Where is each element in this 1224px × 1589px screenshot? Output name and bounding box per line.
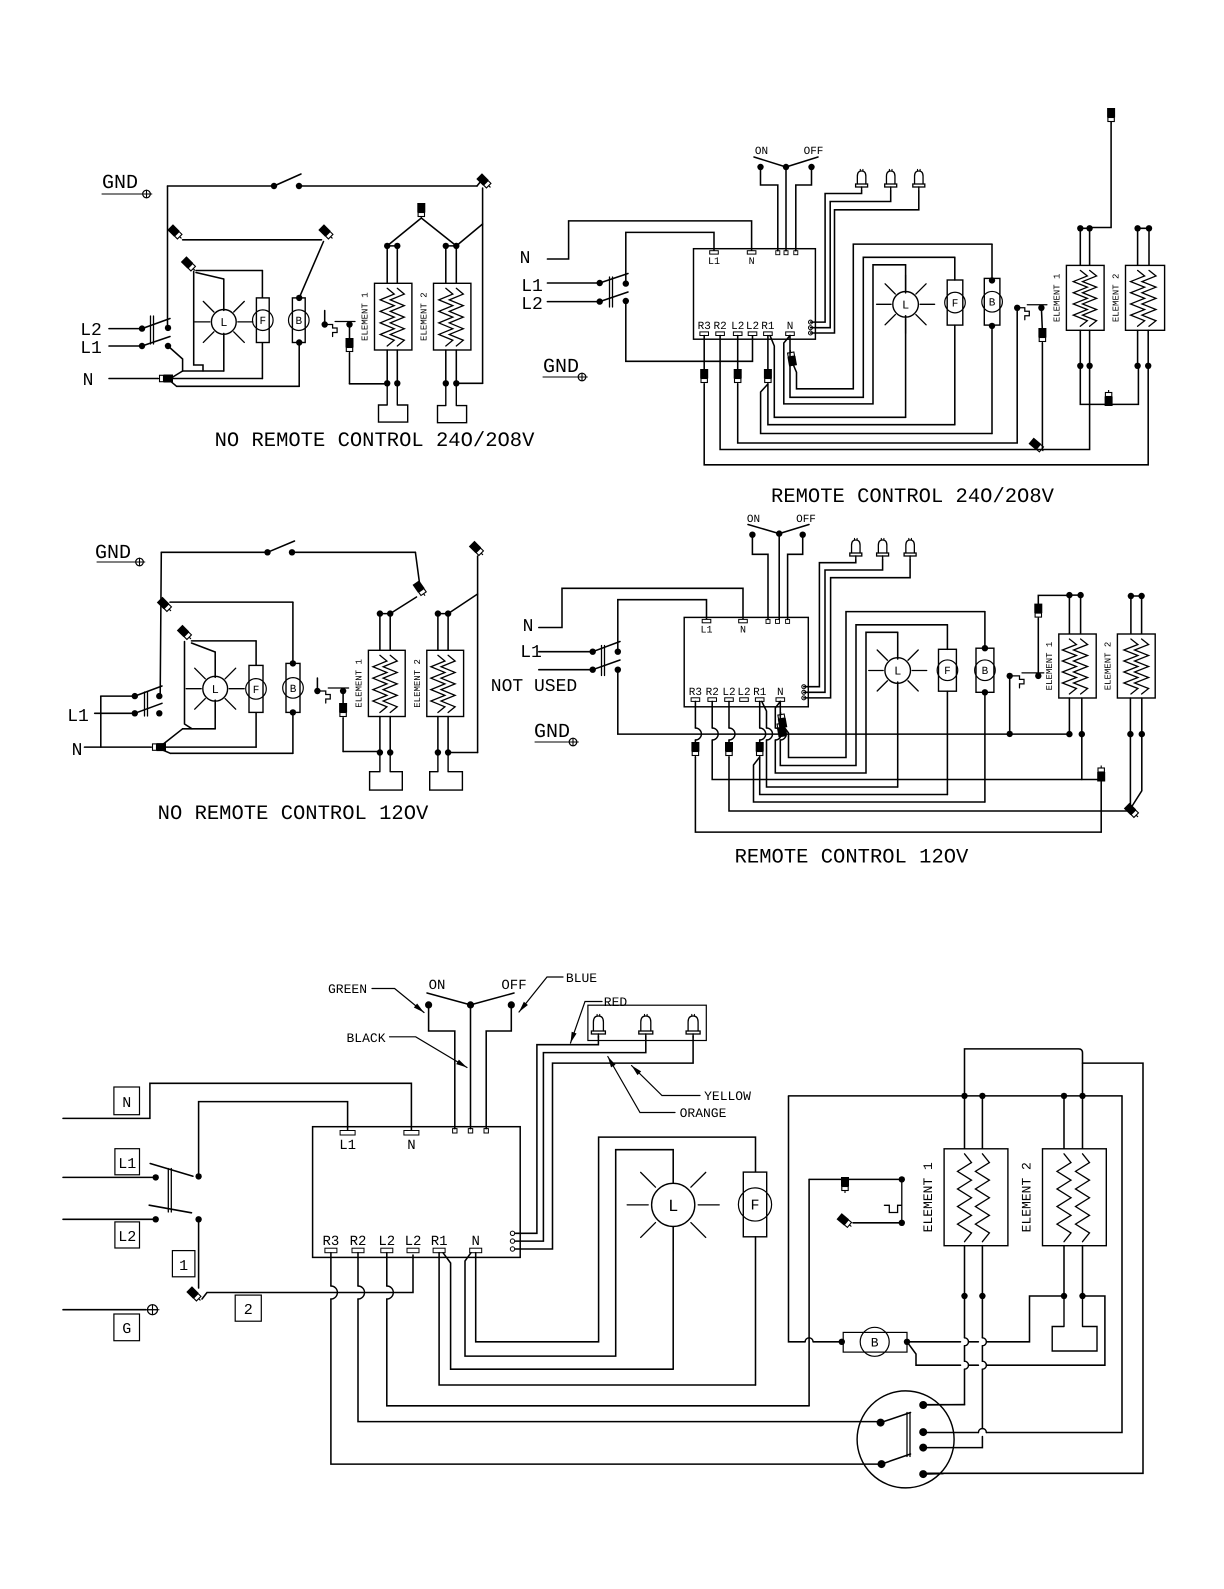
- terminal lug on R2 line: [1029, 438, 1046, 454]
- terminal lug A: [167, 224, 184, 241]
- svg-text:B: B: [982, 666, 989, 678]
- indicator lamp 2: [886, 171, 895, 184]
- wire element2 to right vertical: [456, 382, 482, 384]
- wire N feed: [109, 378, 158, 380]
- terminals R3 R2 L2 L2 R1 N: [700, 332, 709, 336]
- wire R2 to element1 right: [712, 701, 1101, 779]
- wires ON-OFF to box: [752, 535, 768, 620]
- label 2 boxed: [235, 1295, 261, 1321]
- switch ON-OFF: [425, 1001, 432, 1008]
- wire N to fan bottom: [171, 378, 263, 380]
- wire lug B to buzzer top: [300, 242, 323, 296]
- svg-text:1: 1: [179, 1258, 188, 1275]
- feed terminal for elements: [417, 203, 425, 219]
- svg-text:2: 2: [244, 1302, 253, 1319]
- wire N to fan top: [476, 1137, 756, 1342]
- wire buzzer right to element2 right: [907, 1296, 1105, 1365]
- terminal lug on cutout wire: [339, 703, 347, 719]
- terminal lug on element link: [1105, 390, 1113, 406]
- wire N to buzzer top: [793, 244, 992, 389]
- svg-text:L2: L2: [80, 321, 102, 341]
- wires element bottoms: [386, 350, 388, 383]
- switch DP contacts: [195, 1173, 201, 1179]
- lamp bank box: [588, 1005, 706, 1040]
- thermal cutout: [316, 678, 318, 690]
- svg-text:YELLOW: YELLOW: [704, 1089, 751, 1104]
- terminal lug above cutout: [1034, 604, 1042, 620]
- wire element2 diag to right vertical: [456, 224, 482, 246]
- wire R2 to rotary: [358, 1253, 881, 1422]
- ground symbol: [148, 1305, 158, 1315]
- lamp L: [652, 1183, 695, 1226]
- svg-text:R3: R3: [689, 687, 702, 699]
- svg-text:L2: L2: [731, 321, 744, 333]
- node element2 top: [1134, 225, 1140, 231]
- svg-text:GND: GND: [543, 356, 579, 379]
- terminal lug N: [150, 743, 166, 751]
- wire cutout to element 1: [349, 325, 351, 342]
- svg-text:L1: L1: [339, 1138, 356, 1154]
- switch DP contacts: [156, 693, 162, 699]
- wire N to control box: [539, 588, 743, 627]
- svg-text:ELEMENT 1: ELEMENT 1: [1045, 642, 1055, 691]
- node element1 top: [1077, 225, 1083, 231]
- terminal N: [404, 1131, 419, 1136]
- wires lamps to box pins: [515, 1036, 598, 1233]
- wire R3 bottom run: [694, 701, 696, 745]
- wire right vertical: [477, 556, 479, 753]
- wire L2 to junction: [387, 1253, 809, 1406]
- wire N to lamp top: [784, 265, 906, 404]
- wire L2 contact to box L2: [626, 301, 753, 361]
- wire lug C to lamp top: [196, 273, 224, 280]
- wire cutout to element1: [342, 691, 344, 706]
- svg-text:L2: L2: [521, 295, 543, 315]
- wire L1 feed: [547, 282, 599, 284]
- buzzer B: [976, 648, 994, 692]
- wire buzzer right to element2 left: [907, 1296, 1064, 1342]
- indicator lamp 1: [852, 540, 861, 553]
- terminal L1: [340, 1131, 355, 1136]
- terminal lug L2: [186, 1286, 203, 1303]
- element 1: [1066, 265, 1104, 330]
- terminal lug on R2 line: [1097, 766, 1105, 782]
- wire L2 contact down: [198, 1219, 200, 1288]
- wire lug A to lug B: [183, 239, 322, 241]
- wire GND top run with switch: [168, 185, 275, 187]
- terminal L1: [710, 251, 719, 254]
- svg-text:ELEMENT 1: ELEMENT 1: [921, 1162, 936, 1232]
- wire N to lamp top: [775, 632, 897, 773]
- svg-text:R3: R3: [698, 321, 711, 333]
- wire right vertical: [482, 188, 484, 383]
- wire lug E drop: [185, 642, 193, 729]
- ground symbol: [543, 376, 576, 378]
- svg-text:N: N: [72, 741, 83, 761]
- wire L2 feed: [63, 1218, 156, 1220]
- indicator lamp 1: [857, 171, 866, 184]
- wire element2 right diag: [1132, 734, 1142, 807]
- wires element bottoms: [964, 1246, 966, 1296]
- wire lamp bottom lead: [223, 333, 225, 371]
- svg-text:R3: R3: [322, 1234, 339, 1250]
- terminal lug N: [157, 375, 173, 383]
- wire R1 to fan bottom: [768, 384, 955, 425]
- wire N to buzzer top: [783, 612, 985, 758]
- indicator lamp 2: [641, 1016, 651, 1031]
- terminal L1: [702, 619, 711, 622]
- plug element 1: [379, 383, 408, 422]
- pins box top: [766, 619, 770, 623]
- wire L2 to cutout: [738, 308, 1018, 443]
- ground symbol: [535, 741, 567, 743]
- wire top to corner terminal: [299, 185, 477, 187]
- svg-text:REMOTE CONTROL 12OV: REMOTE CONTROL 12OV: [735, 847, 969, 870]
- element 2: [1043, 1149, 1107, 1246]
- wire L1 feed: [95, 712, 135, 714]
- terminal lug at corner: [1124, 803, 1141, 820]
- lamp L: [885, 658, 911, 684]
- node element2 top: [443, 243, 449, 249]
- wire L1 contact to box L1: [626, 232, 714, 283]
- wire top to element feed: [292, 551, 415, 553]
- element 1: [368, 650, 405, 716]
- fan F: [947, 280, 963, 325]
- svg-text:L1: L1: [80, 339, 102, 359]
- svg-text:NOT USED: NOT USED: [491, 677, 577, 697]
- fan F: [256, 298, 269, 343]
- svg-text:BLACK: BLACK: [346, 1031, 385, 1046]
- svg-text:R1: R1: [761, 321, 775, 333]
- wire N to buzzer bottom: [177, 385, 300, 387]
- wire R1 to buzzer bottom: [754, 757, 985, 802]
- wire thermostat feed vertical: [808, 1179, 810, 1405]
- terminal lug on cutout wire: [346, 338, 354, 354]
- thermal cutout feed: [1009, 676, 1011, 734]
- svg-text:G: G: [122, 1321, 131, 1338]
- wire cutout to element1 top: [1037, 619, 1039, 676]
- svg-text:L2: L2: [118, 1229, 136, 1246]
- wire element2 left down to corner: [1129, 734, 1131, 809]
- svg-text:L2: L2: [405, 1234, 422, 1250]
- wire L2 to element2 left: [729, 757, 1130, 811]
- wire unused feed: [539, 669, 593, 671]
- element 1: [375, 283, 412, 350]
- svg-text:GND: GND: [534, 721, 570, 744]
- svg-text:B: B: [989, 298, 996, 310]
- lamp L: [211, 310, 236, 335]
- svg-text:F: F: [944, 666, 951, 678]
- svg-text:F: F: [259, 316, 266, 328]
- rotary blades: [881, 1413, 911, 1423]
- terminals R3 R2 L2 L2 R1 N: [325, 1248, 337, 1253]
- svg-text:N: N: [407, 1138, 415, 1154]
- node element2 top: [435, 610, 441, 616]
- svg-text:N: N: [520, 249, 531, 269]
- indicator lamp 2: [878, 540, 887, 553]
- node element1 top: [384, 243, 390, 249]
- pins box top: [453, 1129, 457, 1133]
- wire to far right down: [923, 1063, 1143, 1473]
- svg-text:B: B: [871, 1336, 879, 1351]
- terminal lug B: [318, 224, 335, 241]
- terminal lug under L2: [728, 701, 730, 745]
- fan F: [743, 1172, 766, 1237]
- indicator lamp 1: [593, 1016, 603, 1031]
- label G boxed: [114, 1314, 140, 1341]
- svg-text:L: L: [212, 683, 219, 697]
- terminal lug under cutout: [1041, 308, 1042, 331]
- indicator lamp 3: [688, 1016, 698, 1031]
- buzzer B: [292, 298, 305, 343]
- svg-text:ON: ON: [755, 146, 768, 158]
- wire lug E to fan top: [192, 640, 257, 642]
- wires ON-OFF to box: [761, 167, 778, 251]
- pins box top: [776, 251, 780, 255]
- svg-text:R1: R1: [431, 1234, 448, 1250]
- wires element tops down: [386, 246, 388, 283]
- svg-text:N: N: [122, 1095, 131, 1112]
- label 1 boxed: [172, 1251, 195, 1277]
- wire N jumper to upper pole: [101, 695, 135, 697]
- wire element1 left to element2 left: [1080, 366, 1138, 405]
- element 2: [1117, 634, 1155, 698]
- wires element bottoms: [1079, 330, 1081, 366]
- svg-text:R2: R2: [713, 321, 726, 333]
- terminal N: [739, 619, 748, 622]
- svg-text:L1: L1: [520, 643, 542, 663]
- wire element1 left top up: [965, 1049, 1083, 1096]
- svg-text:L: L: [894, 665, 901, 679]
- thermal cutout vertical: [899, 1176, 905, 1182]
- wires pins to indicator lamps: [811, 191, 862, 323]
- svg-text:ELEMENT 1: ELEMENT 1: [354, 659, 364, 708]
- plug element 2: [1052, 1296, 1097, 1351]
- element 1: [944, 1149, 1008, 1246]
- svg-text:L: L: [220, 316, 227, 330]
- wire top terminal to element1: [1090, 122, 1112, 228]
- node element1 top: [1066, 592, 1072, 598]
- svg-text:ORANGE: ORANGE: [680, 1106, 727, 1121]
- svg-text:ELEMENT 2: ELEMENT 2: [1112, 274, 1122, 323]
- thermal cutout: [1014, 305, 1020, 311]
- rotary switch: [857, 1391, 954, 1488]
- svg-text:N: N: [787, 321, 794, 333]
- wires element tops down: [964, 1096, 966, 1149]
- wires element tops down: [1079, 228, 1081, 265]
- wire R1 to fan bottom: [439, 1253, 755, 1385]
- svg-text:ELEMENT 1: ELEMENT 1: [1052, 274, 1062, 323]
- svg-text:B: B: [290, 684, 297, 696]
- terminal lug on element feed: [413, 580, 429, 598]
- svg-text:L1: L1: [708, 257, 720, 268]
- switch contacts: [264, 549, 270, 555]
- label L1 boxed: [115, 1149, 140, 1175]
- wire R1 to lamp bottom: [770, 336, 906, 418]
- switch linkage: [150, 316, 152, 344]
- svg-text:L2: L2: [746, 321, 759, 333]
- svg-text:L1: L1: [700, 626, 712, 637]
- switch ON-OFF: [757, 164, 763, 170]
- node element1 top: [377, 610, 383, 616]
- element 1: [1059, 634, 1096, 698]
- wire lug E to lamp top: [192, 643, 216, 652]
- terminal N: [747, 251, 756, 254]
- wire R1 to fan bottom: [760, 757, 948, 795]
- wire V feed to elements: [387, 218, 421, 246]
- svg-text:F: F: [253, 685, 260, 697]
- terminal lug top-right: [477, 181, 481, 186]
- svg-text:L1: L1: [521, 277, 543, 297]
- terminal lug on lower wire: [776, 720, 787, 737]
- svg-text:ELEMENT 2: ELEMENT 2: [420, 292, 430, 341]
- svg-text:L: L: [902, 299, 909, 313]
- svg-text:BLUE: BLUE: [566, 971, 597, 986]
- wire N to buzzer bottom: [164, 750, 171, 753]
- lamp L: [893, 292, 919, 318]
- wire left vertical from top: [167, 186, 169, 325]
- svg-text:N: N: [83, 371, 94, 391]
- wires ON-OFF to box: [429, 1005, 455, 1129]
- wire element1 left to rotary: [923, 1296, 964, 1405]
- terminal lug under N: [777, 711, 788, 728]
- svg-text:L1: L1: [118, 1156, 136, 1173]
- wire cutout bottom stub: [853, 1222, 902, 1224]
- wire G feed: [63, 1309, 146, 1311]
- control box: [313, 1127, 521, 1258]
- wire L2 feed: [109, 328, 142, 330]
- terminals R3 R2 L2 L2 R1 N: [691, 698, 700, 702]
- switch linkage: [144, 692, 146, 716]
- element 2: [1126, 265, 1165, 330]
- wires element tops down: [379, 614, 381, 651]
- svg-text:GREEN: GREEN: [328, 982, 367, 997]
- svg-text:OFF: OFF: [501, 978, 526, 994]
- wire element2 diag: [448, 594, 478, 614]
- wire N feed: [63, 1083, 411, 1130]
- terminal lug under N: [786, 349, 797, 366]
- wires element tops down: [1068, 595, 1070, 634]
- svg-text:ELEMENT 2: ELEMENT 2: [1020, 1162, 1035, 1232]
- terminal lug under R3: [703, 336, 705, 373]
- switch DP contacts: [615, 649, 621, 655]
- wire lug C to fan top: [196, 270, 262, 272]
- wire top run with switch: [161, 551, 267, 553]
- svg-text:F: F: [750, 1198, 759, 1215]
- wire L1 feed: [539, 651, 593, 653]
- lamp L: [203, 676, 228, 701]
- svg-text:L2: L2: [378, 1234, 395, 1250]
- buzzer B: [843, 1332, 907, 1352]
- switch linkage: [609, 277, 611, 307]
- wire N to control box: [547, 221, 751, 259]
- terminal lug under L2: [737, 336, 739, 373]
- wire junction down: [1100, 780, 1102, 833]
- terminal lug top right: [469, 541, 486, 558]
- fan F: [939, 649, 957, 691]
- rotary linkage: [906, 1413, 908, 1457]
- svg-text:ELEMENT 1: ELEMENT 1: [361, 292, 371, 341]
- wire left vertical: [160, 552, 161, 694]
- terminal lug C: [181, 256, 198, 273]
- wires pins to indicator lamps: [804, 560, 856, 687]
- svg-text:N: N: [523, 617, 534, 637]
- wire R1 to buzzer bottom: [761, 384, 992, 434]
- element 2: [427, 650, 464, 716]
- svg-text:REMOTE CONTROL 24O/2O8V: REMOTE CONTROL 24O/2O8V: [771, 486, 1055, 509]
- wire lamp bottom: [672, 1227, 674, 1370]
- wire N to fan top: [780, 625, 947, 766]
- wire L1 feed: [109, 345, 142, 347]
- svg-text:N: N: [471, 1234, 479, 1250]
- pins box right: [809, 320, 813, 324]
- switch S1 contacts: [271, 183, 277, 189]
- feed terminal top: [1107, 108, 1115, 124]
- control box: [684, 617, 808, 706]
- wire R2 to element1 right: [720, 336, 1090, 450]
- svg-text:L2: L2: [722, 687, 735, 699]
- terminal lug on link: [841, 1177, 849, 1193]
- svg-text:OFF: OFF: [804, 146, 824, 158]
- svg-text:ELEMENT 2: ELEMENT 2: [1103, 642, 1113, 691]
- wire lamp bottom rail: [183, 370, 224, 372]
- buzzer B: [286, 663, 300, 712]
- svg-text:NO REMOTE CONTROL 12OV: NO REMOTE CONTROL 12OV: [158, 803, 429, 826]
- svg-text:L1: L1: [67, 707, 89, 727]
- svg-text:L2: L2: [737, 687, 750, 699]
- wire N to lamp bottom: [164, 729, 183, 744]
- svg-text:OFF: OFF: [796, 514, 816, 526]
- wire L1 feed: [63, 1176, 156, 1178]
- wire lower contact to element1 left: [618, 670, 1070, 734]
- wire L1 contact to box L1: [618, 600, 707, 652]
- svg-text:ON: ON: [429, 978, 446, 994]
- wire element top bus: [789, 1095, 1123, 1097]
- terminal lug under R3: [691, 742, 699, 758]
- buzzer B: [984, 278, 1000, 325]
- ground symbol: [97, 561, 134, 563]
- wire R3 to rotary: [331, 1253, 882, 1464]
- control box: [694, 249, 816, 340]
- switch ON-OFF: [749, 532, 755, 538]
- terminal lug stub: [837, 1213, 854, 1229]
- wire R1 to lamp bottom: [443, 1253, 673, 1370]
- svg-text:N: N: [740, 626, 746, 637]
- svg-text:GND: GND: [102, 172, 138, 195]
- wire L2 feed: [547, 301, 599, 303]
- svg-text:R2: R2: [350, 1234, 367, 1250]
- element 2: [434, 283, 471, 350]
- wire buzzer left up: [789, 1096, 842, 1342]
- wire L1 contact to lamp bottom rail: [168, 346, 183, 371]
- indicator lamp 3: [915, 171, 924, 184]
- indicator lamp 3: [906, 540, 915, 553]
- wire L1 contact to box: [199, 1102, 348, 1177]
- wire lug C drop: [194, 271, 203, 371]
- node element2 top: [1128, 593, 1134, 599]
- terminal lug E: [177, 625, 194, 642]
- wire fan bottom: [755, 1237, 757, 1385]
- svg-text:B: B: [295, 316, 302, 328]
- svg-text:ELEMENT 2: ELEMENT 2: [413, 659, 423, 708]
- wire L2 to terminal L2-2 with hops: [202, 1255, 413, 1299]
- wire N to fan bottom: [164, 746, 257, 748]
- label N boxed: [114, 1087, 140, 1115]
- switch linkage: [167, 1169, 169, 1213]
- wire R3 to element2 right: [704, 366, 1148, 465]
- switch DP main contacts: [165, 325, 171, 331]
- wire lug D to buzzer top: [170, 601, 293, 603]
